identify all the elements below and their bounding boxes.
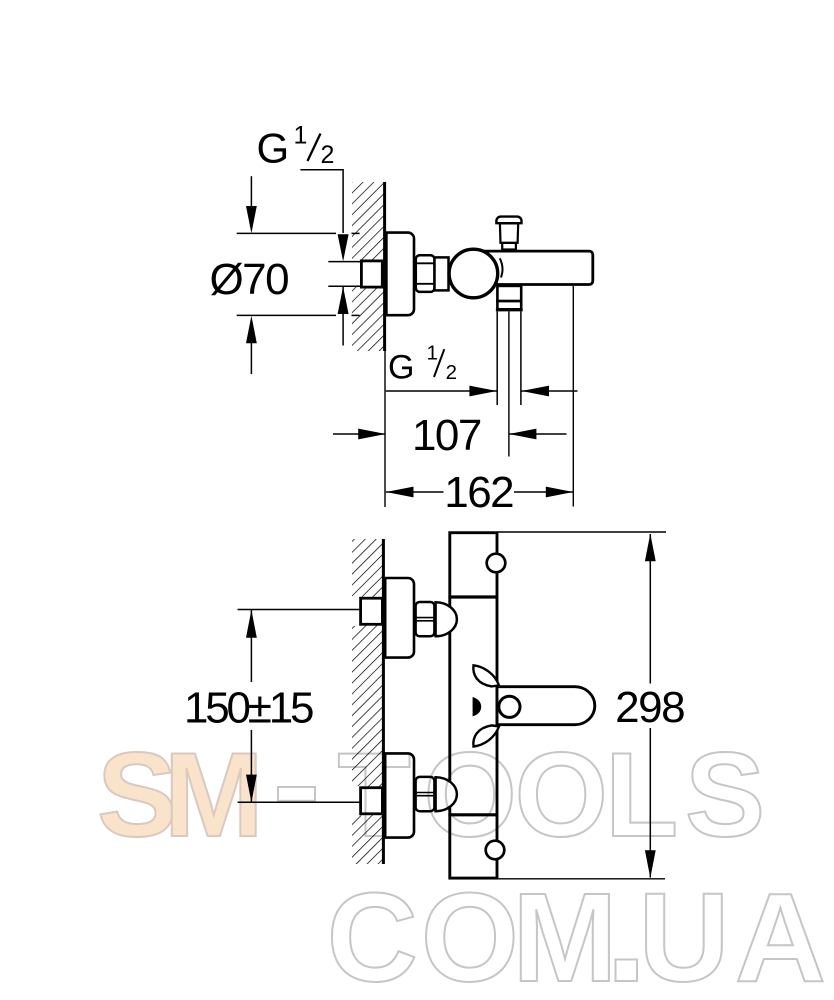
wall face extension line down	[384, 351, 386, 507]
wall hatch (top view)	[352, 182, 385, 351]
shower hose outer lines	[496, 311, 498, 405]
298 dimension line with arrows	[649, 534, 651, 684]
svg-text:TOOLS: TOOLS	[338, 728, 766, 862]
wall face line (bottom view)	[382, 539, 385, 864]
top rosette (bottom view)	[385, 578, 414, 658]
wall hatch (bottom view)	[352, 539, 383, 864]
wall pipe channel lines	[328, 261, 361, 263]
union hex nut (top view)	[416, 255, 435, 292]
svg-text:1: 1	[427, 342, 438, 365]
G1/2 pipe stub square in wall	[361, 261, 382, 287]
bottom screw circle	[486, 841, 505, 860]
economy stop crescent	[473, 697, 482, 716]
G1/2 hose dimension line row	[386, 390, 497, 392]
body joint line bottom	[448, 813, 497, 816]
svg-text:298: 298	[615, 683, 684, 732]
svg-text:COM: COM	[327, 867, 618, 1000]
298 top extension line	[498, 531, 666, 533]
white gap around bottom stub	[348, 786, 362, 816]
svg-text:2: 2	[446, 361, 457, 384]
dia70 top arrow	[250, 176, 252, 206]
150 dimension line with arrows	[250, 610, 252, 682]
top union hex nut	[416, 602, 435, 636]
dimension 107 row	[333, 433, 386, 435]
watermark period	[616, 960, 638, 982]
svg-text:150±15: 150±15	[184, 684, 313, 733]
svg-text:UA: UA	[639, 867, 826, 1000]
diverter button circle	[499, 696, 520, 717]
G1/2 bottom arrow up	[342, 287, 344, 346]
bottom rosette (bottom view)	[385, 753, 414, 837]
watermark hyphen	[278, 787, 315, 801]
diverter knob cap	[496, 217, 521, 224]
faucet body (top view)	[468, 251, 593, 284]
top screw circle	[487, 554, 506, 573]
svg-text:1: 1	[294, 122, 308, 150]
leader line for G 1/2 top	[300, 170, 343, 233]
hose coupling bottom thick edge	[496, 308, 523, 311]
G1/2 top arrow down	[338, 234, 349, 261]
svg-text:G: G	[257, 125, 290, 172]
150 bottom extension line	[238, 801, 361, 803]
wall pipe channel white gap	[340, 263, 362, 286]
svg-text:107: 107	[412, 411, 481, 460]
thermostat body column	[450, 533, 497, 878]
diverter knob collar	[502, 243, 516, 250]
connector piece	[435, 257, 449, 290]
hand shower outlet block	[497, 286, 521, 301]
hose coupling band	[497, 301, 521, 309]
ball housing arc inside body	[500, 258, 503, 277]
svg-text:G: G	[388, 348, 414, 386]
svg-text:SM: SM	[97, 728, 264, 862]
298 bottom extension line	[498, 878, 665, 880]
white gap around top stub	[348, 597, 362, 627]
svg-text:2: 2	[321, 141, 335, 169]
wall face line (top view)	[383, 182, 386, 351]
check valve housing circle	[449, 249, 498, 298]
bottom union dome	[436, 777, 457, 811]
svg-text:162: 162	[444, 468, 513, 517]
bottom stub square (bottom view)	[361, 788, 383, 814]
right extension line for 162	[572, 286, 574, 507]
handle blade lower	[473, 725, 499, 746]
top union dome	[436, 602, 457, 636]
bath spout U shape	[497, 687, 595, 725]
handle blade upper	[473, 665, 499, 686]
dia70 bottom arrow	[250, 343, 252, 374]
top stub square (bottom view)	[361, 598, 383, 624]
body joint line top	[448, 595, 497, 598]
svg-text:Ø70: Ø70	[209, 255, 288, 304]
dia70 top extent line	[237, 232, 336, 234]
escutcheon rosette (top view)	[386, 233, 414, 316]
dia70 bottom extent line	[237, 314, 336, 316]
dimension 162 row	[386, 491, 444, 493]
bottom union hex nut	[416, 777, 435, 811]
150 top extension line	[238, 609, 361, 611]
hose axis extension line	[508, 311, 510, 456]
diverter knob stem	[500, 223, 518, 243]
